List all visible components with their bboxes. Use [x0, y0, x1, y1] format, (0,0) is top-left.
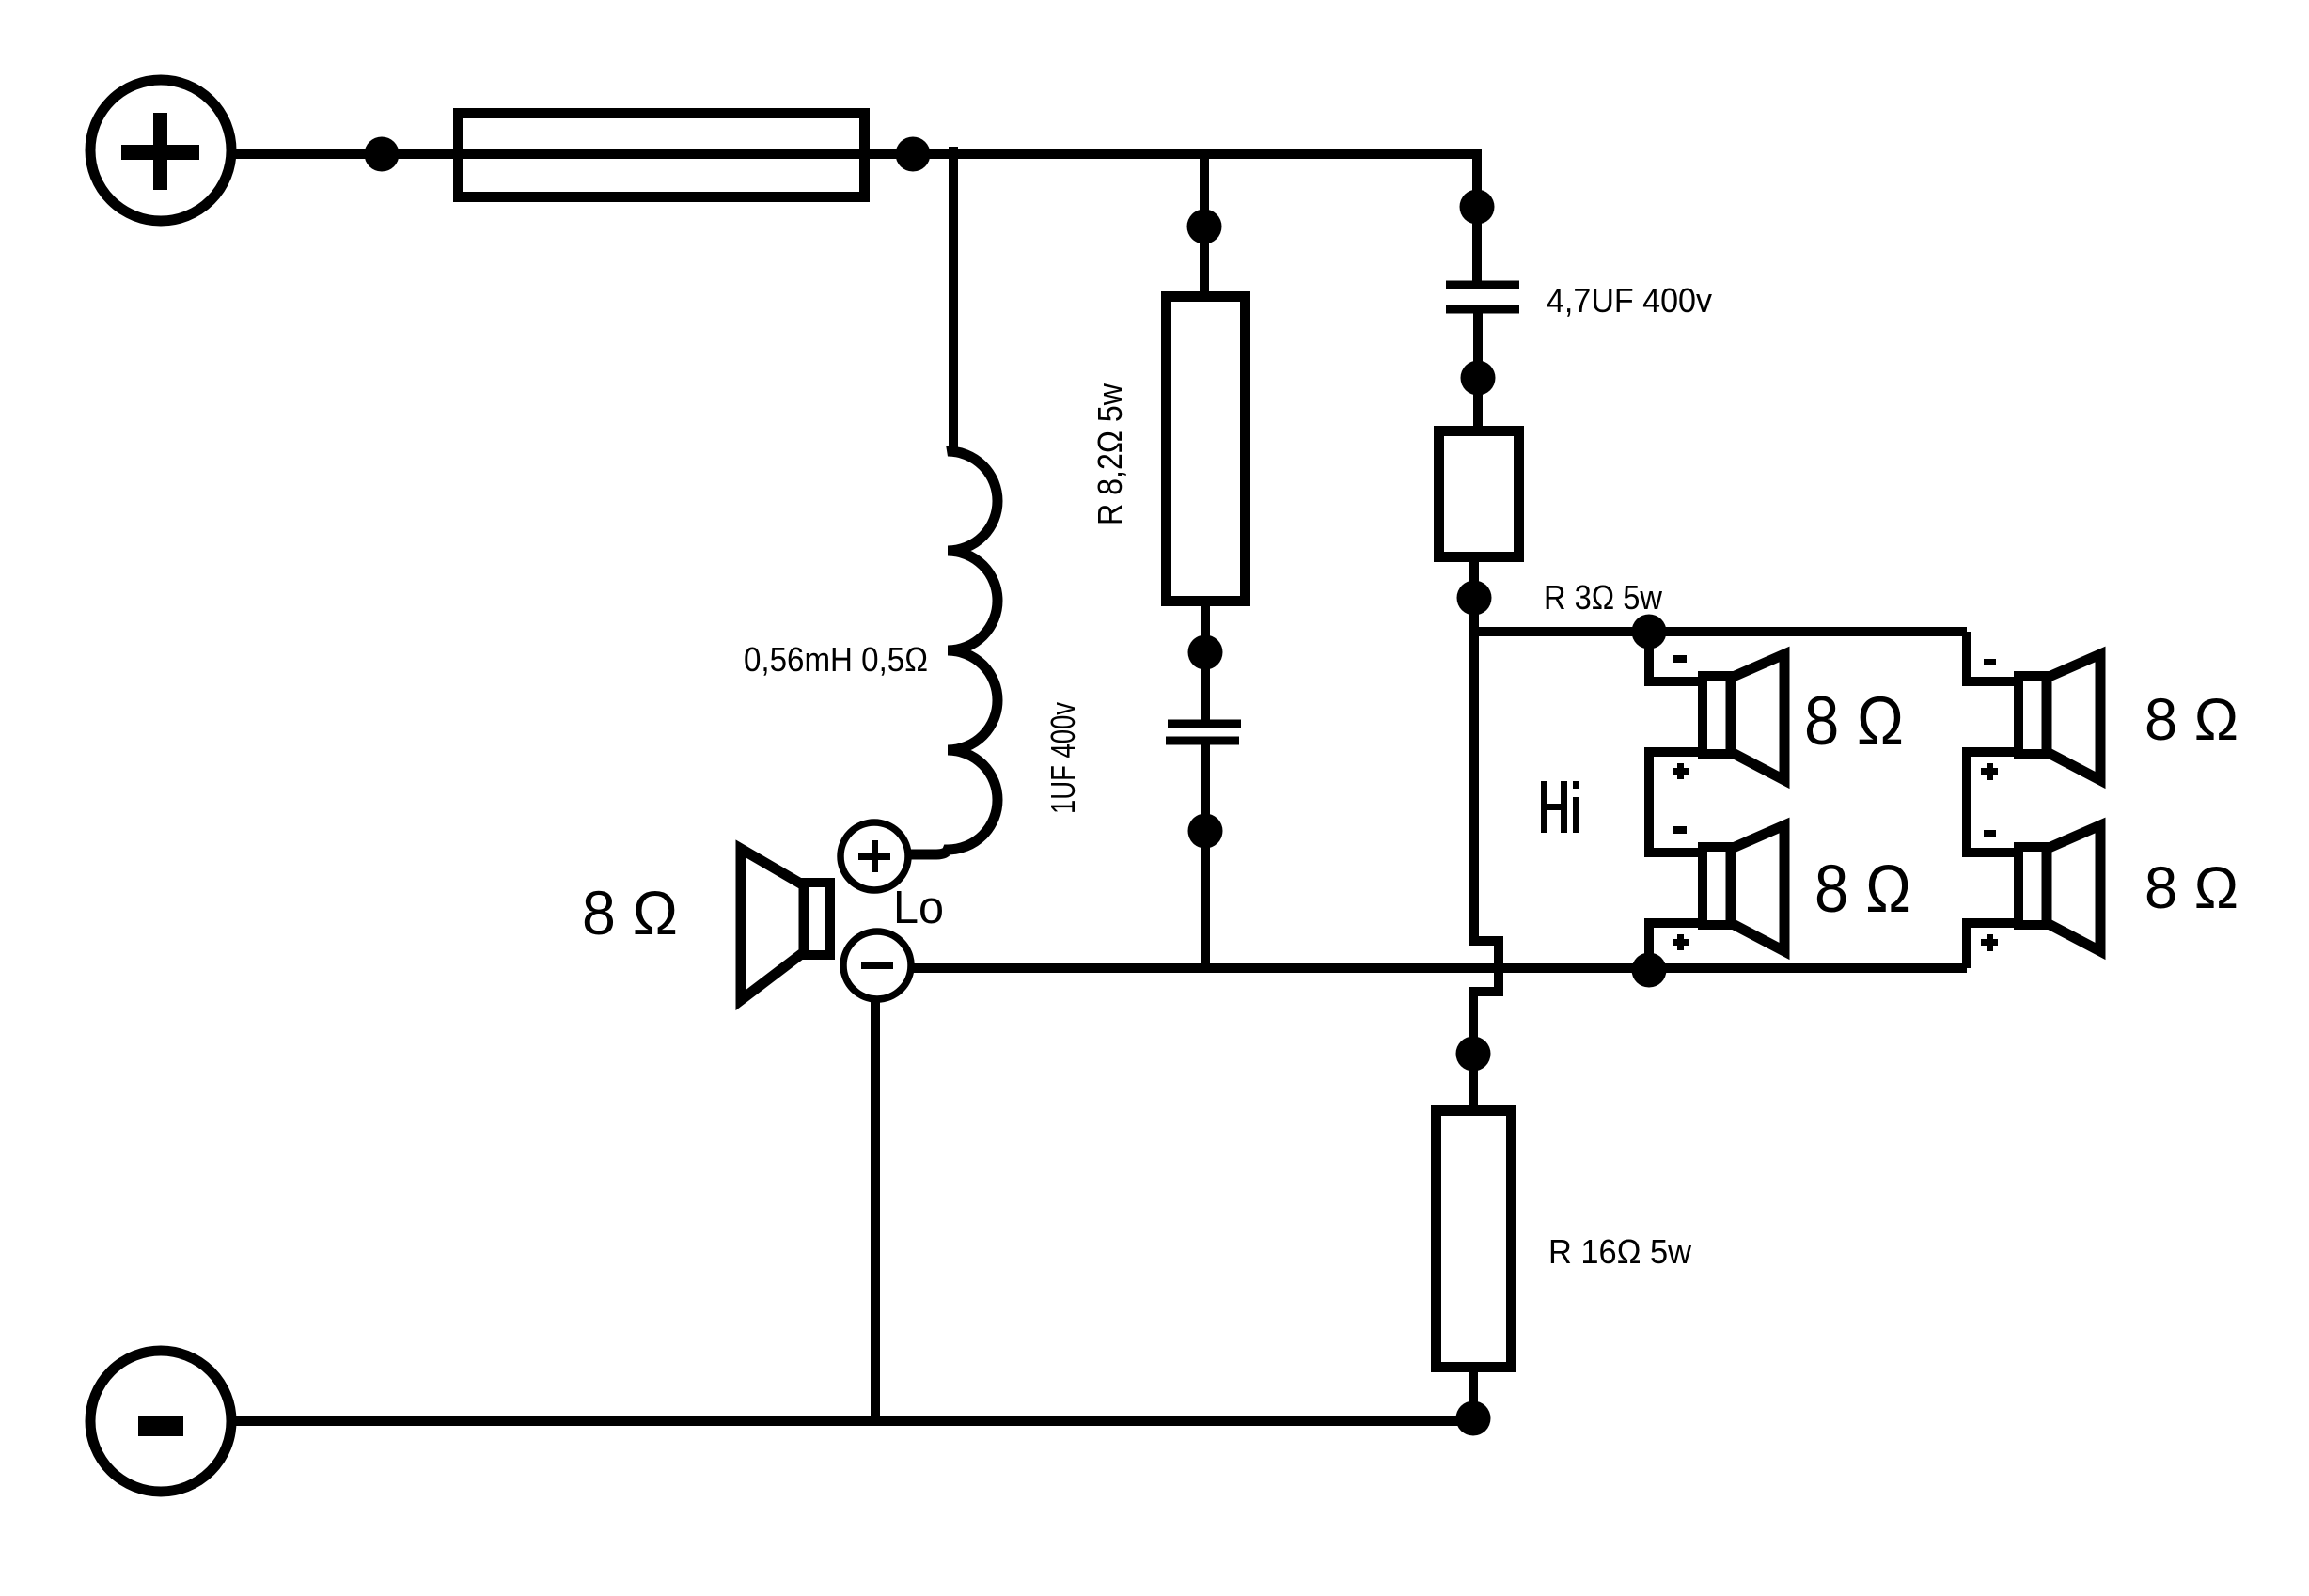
capacitor C2 1UF 400v	[1166, 724, 1241, 741]
svg-text:8 Ω: 8 Ω	[2144, 855, 2238, 921]
node: dot below R3	[1457, 581, 1492, 616]
speaker HI bottom-right (8 ohm)	[2018, 825, 2100, 951]
speaker LO (8 ohm woofer, facing left)	[741, 849, 830, 1000]
wire: 4,7UF to R3	[1473, 309, 1483, 426]
node: dot on mid branch	[1187, 210, 1222, 244]
speaker LO terminal minus circle	[843, 931, 911, 999]
wire: plus terminal to fuse	[231, 149, 453, 159]
wire: Lo return horizontal	[909, 963, 1967, 973]
wire: through fuse	[453, 149, 870, 159]
node: dot at left speaker column top	[1632, 615, 1667, 649]
wire: Lo minus down to bottom rail	[871, 997, 880, 1421]
wire: left col middle segment	[1649, 752, 1698, 853]
svg-text:0,56mH 0,5Ω: 0,56mH 0,5Ω	[744, 640, 928, 679]
inductor L1 0,56mH coil	[908, 449, 997, 854]
label: minus (TL speaker)	[1673, 655, 1687, 663]
wire: top rail (fuse to right corner)	[870, 149, 1482, 159]
label: plus (TR speaker)	[1981, 763, 1998, 780]
wire: mid branch vertical (rail to R8.2)	[1200, 154, 1209, 291]
node: dot at left speaker column bottom	[1632, 953, 1667, 988]
speaker HI top-right (8 ohm)	[2018, 654, 2100, 780]
label: plus (BR speaker)	[1981, 934, 1998, 951]
wire: Hi top feed horizontal	[1474, 627, 1967, 636]
node: dot above R16	[1456, 1037, 1491, 1072]
wire: Lo branch vertical down to inductor	[949, 147, 958, 449]
node: dot below 1UF	[1188, 814, 1223, 849]
svg-text:4,7UF 400v: 4,7UF 400v	[1547, 281, 1712, 320]
speaker HI top-left (8 ohm)	[1703, 654, 1784, 780]
speaker group wiring: right column	[1967, 632, 2014, 968]
speaker group wiring: left column	[1649, 632, 1698, 970]
wire: right col middle segment	[1967, 752, 2014, 853]
terminal PLUS (input +)	[90, 80, 231, 221]
node: dot above R3	[1461, 361, 1496, 396]
wire: right col top segment	[1967, 632, 2014, 681]
node: dot top right branch	[1460, 190, 1495, 225]
wire: below 1UF to Lo return	[1201, 741, 1210, 968]
svg-text:R 8,2Ω 5w: R 8,2Ω 5w	[1091, 383, 1129, 525]
label: Hi	[1541, 781, 1579, 833]
speaker LO terminal plus circle	[840, 822, 908, 890]
node: dot below R8.2	[1188, 635, 1223, 670]
capacitor C1 4,7UF 400v	[1446, 285, 1519, 309]
node: junction dot left of fuse	[365, 137, 400, 172]
wire: R8.2 bottom stub	[1201, 606, 1210, 724]
label: plus (BL speaker)	[1673, 934, 1689, 950]
label: minus (BL speaker)	[1673, 826, 1687, 834]
fuse F1	[459, 114, 865, 197]
resistor R 16ohm 5w	[1437, 1111, 1512, 1368]
wire: Hi branch vertical with jog over Lo return	[1473, 632, 1499, 1105]
label: minus (TR speaker)	[1984, 659, 1996, 665]
wire: right col bottom segment	[1967, 923, 2014, 968]
svg-text:R 3Ω 5w: R 3Ω 5w	[1544, 578, 1663, 617]
node: dot at R16 to bottom rail	[1456, 1401, 1491, 1436]
svg-text:8 Ω: 8 Ω	[1814, 853, 1911, 927]
svg-text:1UF 400v: 1UF 400v	[1044, 702, 1082, 814]
wire: R16 bottom stub	[1469, 1372, 1478, 1421]
svg-text:8 Ω: 8 Ω	[2144, 687, 2238, 753]
wire: R3 bottom stub to corner	[1469, 562, 1479, 632]
svg-text:8 Ω: 8 Ω	[582, 878, 678, 947]
wire: top rail right corner down	[1472, 149, 1482, 285]
label: minus (BR speaker)	[1984, 830, 1996, 837]
terminal MINUS (input -)	[90, 1351, 231, 1492]
resistor R 8,2ohm 5w	[1167, 297, 1246, 602]
node: junction dot right of fuse	[896, 137, 931, 172]
label: plus (TL speaker)	[1673, 763, 1689, 779]
resistor R 3ohm 5w	[1439, 431, 1519, 557]
wire: left col top segment	[1649, 632, 1698, 681]
svg-text:Lo: Lo	[893, 883, 944, 933]
speaker HI bottom-left (8 ohm)	[1703, 825, 1784, 951]
svg-text:8 Ω: 8 Ω	[1804, 683, 1904, 759]
svg-text:R 16Ω 5w: R 16Ω 5w	[1548, 1232, 1692, 1271]
wire: bottom rail	[231, 1416, 1473, 1426]
wire: left col bottom segment	[1649, 923, 1698, 970]
